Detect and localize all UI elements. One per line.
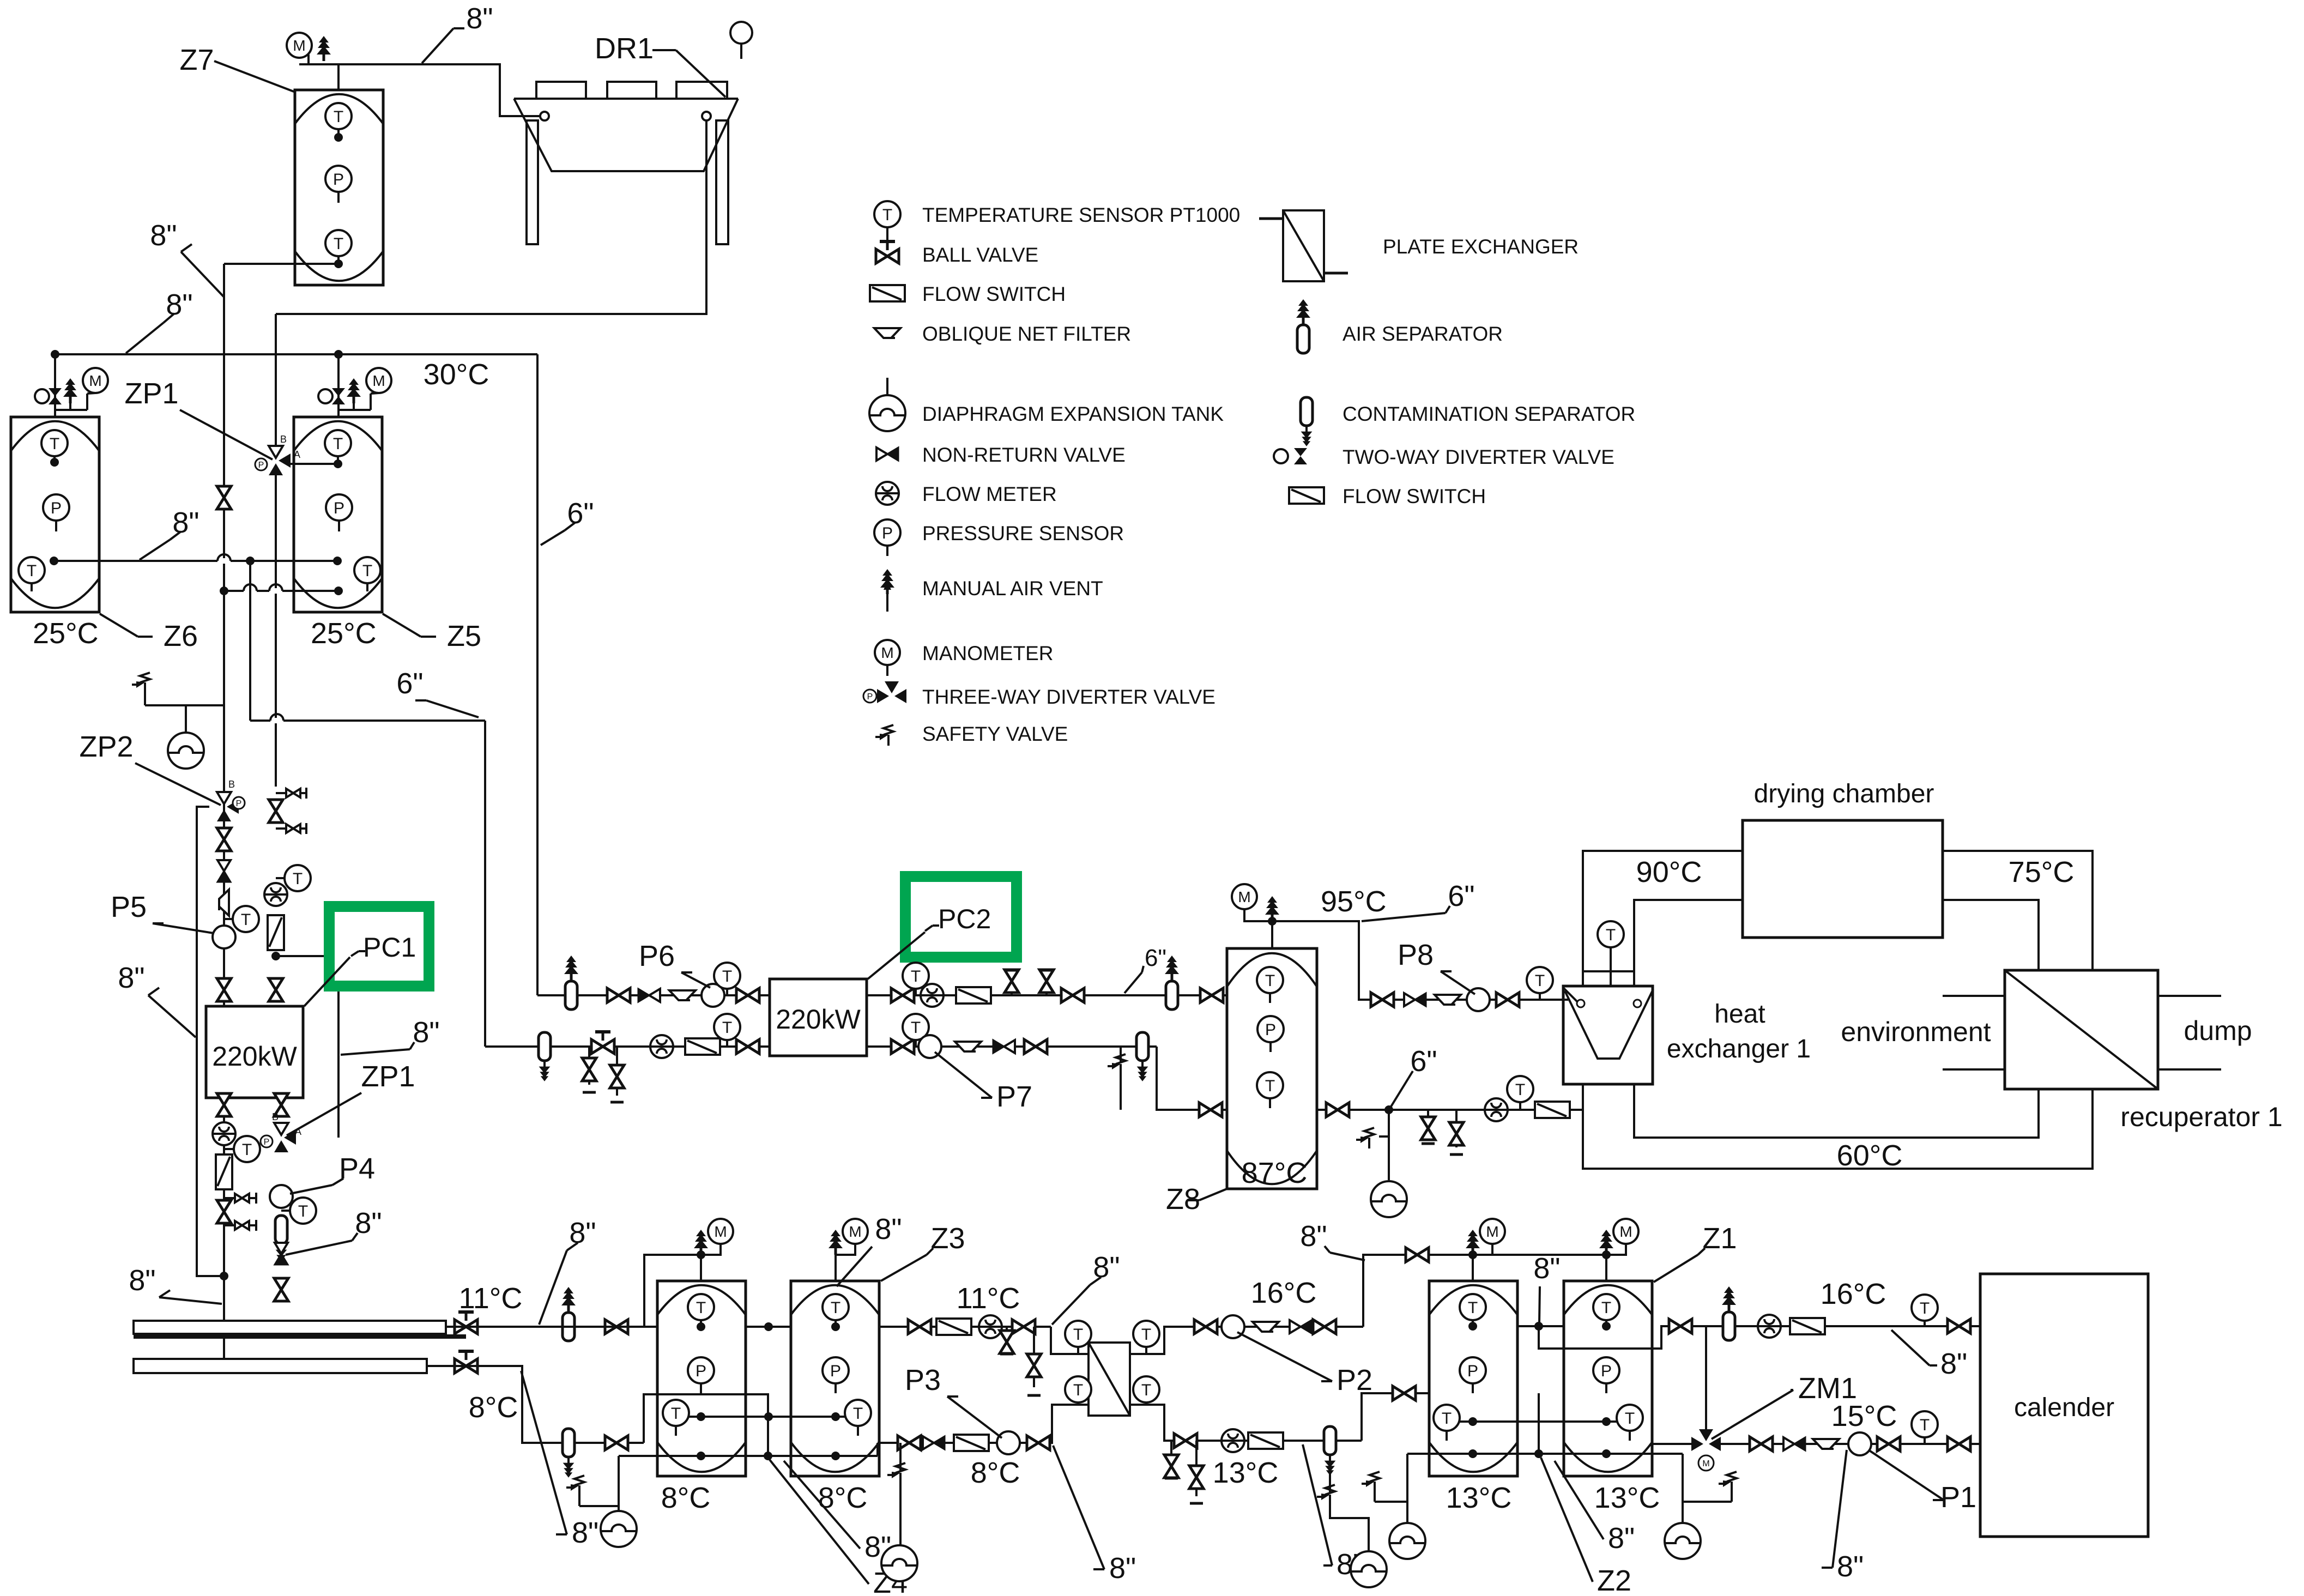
svg-text:6": 6" [396, 667, 423, 700]
collector pipe lower [134, 1359, 427, 1373]
wire 30C loop right edge riser [536, 354, 539, 995]
svg-text:MANUAL AIR VENT: MANUAL AIR VENT [922, 577, 1103, 600]
DR1 left port circle [540, 112, 549, 120]
ball valve P8 a [1371, 993, 1394, 1007]
node bypass join [220, 1272, 228, 1280]
svg-text:Z5: Z5 [447, 620, 481, 652]
flow meter PC2 return [650, 1035, 673, 1058]
wire exch hot out [878, 1405, 1088, 1443]
wire Z8 loop connection [1582, 1110, 1584, 1169]
svg-text:6": 6" [1145, 945, 1166, 971]
wire ZP1 A-port to Z5 [291, 463, 338, 465]
node Z3 top [831, 1322, 840, 1331]
temperature sensor Z5 bottom [354, 557, 380, 583]
temperature sensor P8 line [1539, 993, 1541, 1000]
wire Z6-Z5 mid sensor line [54, 560, 337, 562]
temperature sensor duct [1598, 921, 1624, 947]
svg-text:DIAPHRAGM EXPANSION TANK: DIAPHRAGM EXPANSION TANK [922, 403, 1224, 425]
manometer Z3 [836, 1244, 855, 1255]
wire lower sensor line [224, 590, 338, 592]
svg-text:recuperator 1: recuperator 1 [2120, 1102, 2282, 1132]
safety valve Z8 cluster [1388, 1110, 1390, 1136]
air separator 16C [1722, 1286, 1736, 1340]
svg-text:CONTAMINATION SEPARATOR: CONTAMINATION SEPARATOR [1343, 403, 1635, 425]
node gap top [764, 1322, 773, 1331]
svg-text:PLATE EXCHANGER: PLATE EXCHANGER [1383, 235, 1579, 258]
node Z3 bottom [831, 1452, 840, 1460]
wire PC2 supply line [537, 994, 770, 996]
pump P6 [702, 984, 724, 1007]
svg-text:heat: heat [1714, 1000, 1765, 1029]
temperature sensor Z1 bottom [1617, 1405, 1643, 1431]
pump P8 [1467, 988, 1490, 1011]
node Z1 top [1602, 1322, 1611, 1331]
two-way diverter valve above Z5 [318, 388, 345, 404]
svg-text:P: P [264, 1138, 270, 1147]
svg-text:SAFETY VALVE: SAFETY VALVE [922, 723, 1068, 745]
expansion tank Z8 [1371, 1181, 1407, 1217]
wire PC2 return line [485, 1045, 770, 1048]
manual air vent above Z5 [338, 409, 354, 411]
svg-text:exchanger 1: exchanger 1 [1667, 1035, 1811, 1063]
ball valve x411 with drains [217, 1200, 231, 1223]
svg-text:8": 8" [1533, 1252, 1560, 1285]
wire 8C return [427, 1366, 644, 1443]
node Z1 bot sensor [1602, 1417, 1611, 1426]
oblique filter P2 [1253, 1322, 1279, 1332]
wire bottom sensor line Z2Z1 [1447, 1420, 1630, 1423]
svg-text:60°C: 60°C [1837, 1139, 1903, 1172]
svg-text:P: P [258, 461, 264, 470]
tank Z4 [657, 1281, 746, 1476]
drain branch x411 b [224, 1224, 256, 1226]
temperature sensor Z1 top [1593, 1294, 1619, 1320]
svg-text:PC2: PC2 [938, 904, 991, 934]
node Z4 bottom [697, 1452, 705, 1460]
ball valve P2 b [1313, 1320, 1336, 1334]
ball valve 15C a [1750, 1437, 1773, 1451]
ball valve Z8 bottom in [1199, 1103, 1222, 1117]
node Z3 bot sensor [831, 1412, 840, 1421]
ball valve collector 8C [455, 1351, 477, 1373]
ball valve PC2 return b [736, 1039, 759, 1054]
ball valve P2 line [1194, 1320, 1217, 1334]
manometer above Z5 [370, 394, 372, 410]
non-return P7 [993, 1040, 1015, 1053]
tank Z2 [1429, 1281, 1517, 1476]
air separator PC2 supply [564, 956, 578, 1009]
ball valve x516 [274, 1278, 288, 1301]
node Z2 bottom [1468, 1449, 1477, 1458]
wire PC2 hot out [867, 994, 1227, 996]
non-return P2 [1290, 1320, 1311, 1333]
svg-text:PC1: PC1 [363, 932, 416, 963]
wire environment stub b [1943, 1068, 2005, 1071]
pump P3 [997, 1431, 1020, 1454]
DR1 right leg [716, 120, 728, 244]
wire bottom sensor line [676, 1416, 858, 1418]
wire ET tee line [145, 704, 224, 706]
wire ZP1 riser from DR1 return [275, 314, 277, 446]
ball valve P6 b [736, 988, 759, 1002]
wire 6-inch supply riser to PC2 return [484, 721, 486, 1047]
manometer above Z6 [86, 394, 88, 410]
svg-text:calender: calender [2014, 1393, 2114, 1422]
manometer Z2 [1473, 1244, 1492, 1255]
wire ZP1 down leg [275, 475, 277, 787]
node riser branch [246, 557, 255, 565]
svg-text:B: B [272, 1111, 279, 1122]
temperature sensor Z2 top [1460, 1294, 1486, 1320]
temperature sensor Z6 bottom [19, 557, 45, 583]
ball valve PC2 out b [1061, 988, 1084, 1002]
wire Z1 top riser [1605, 1255, 1607, 1281]
legend manual air vent [880, 569, 894, 594]
svg-text:Z7: Z7 [179, 44, 214, 76]
leader PC1 to heat pump [304, 957, 350, 1006]
non-return valve x516 [275, 1243, 288, 1265]
crossing bump [217, 558, 231, 564]
manometer M at Z7 top [307, 55, 310, 64]
node Z5 mid [333, 557, 342, 565]
pump P7 [918, 1035, 941, 1058]
temperature sensor Z5 top [325, 430, 351, 456]
ball valve P8 b [1496, 993, 1519, 1007]
temperature sensor P6 [726, 987, 728, 995]
svg-text:MANOMETER: MANOMETER [922, 642, 1054, 664]
wire Z8 return drop [1157, 1047, 1227, 1110]
svg-text:8": 8" [466, 2, 493, 35]
svg-text:P4: P4 [339, 1152, 375, 1185]
recuperator 1 box [2005, 970, 2158, 1089]
pressure sensor Z4 [688, 1357, 714, 1383]
ball valve 15C b [1877, 1437, 1900, 1451]
legend manometer [875, 640, 900, 665]
leader PC2 to heat pump [868, 932, 925, 979]
svg-text:B: B [280, 434, 287, 445]
safety valve left cluster [144, 693, 146, 705]
legend flow switch 2 [1289, 487, 1324, 504]
DR1 top box 3 [676, 82, 727, 99]
svg-text:Z3: Z3 [930, 1222, 965, 1255]
DR1 right port circle [702, 112, 711, 120]
svg-text:8": 8" [150, 219, 177, 252]
legend non-return valve [876, 448, 898, 461]
legend two-way diverter valve [1294, 448, 1307, 464]
DR1 top box 2 [607, 82, 656, 99]
wire exch cold in [1130, 1405, 1362, 1441]
wire dump stub a [2158, 995, 2221, 997]
wire Z6 top riser [54, 354, 56, 417]
wire Z5 top riser [337, 354, 340, 417]
ball valve P7 b [1024, 1039, 1047, 1054]
pressure sensor Z5 middle [326, 494, 352, 521]
node Z6 mid [50, 557, 58, 565]
heat exchanger 1 funnel [1565, 989, 1653, 1059]
svg-text:ZP2: ZP2 [79, 730, 133, 763]
drain PC2 a [588, 1047, 590, 1085]
wire main left riser x411 [223, 264, 225, 1359]
label PC2 [925, 926, 933, 931]
flow switch 16C [1790, 1318, 1825, 1334]
temperature sensor 16C [1912, 1295, 1938, 1321]
legend flow switch [870, 285, 905, 301]
temperature sensor Z4 bottom [663, 1400, 689, 1426]
wire bottom left drop [579, 1456, 619, 1506]
controller PC2 green box [905, 876, 1017, 957]
wire 8-inch pipe Z7 to DR1 [338, 64, 541, 116]
svg-text:M: M [1702, 1459, 1709, 1468]
wire Z1 to ZM1 [1652, 1443, 1695, 1445]
svg-text:13°C: 13°C [1594, 1482, 1660, 1514]
non-return valve riser x411 [217, 860, 231, 882]
node header Z5 [334, 350, 343, 359]
air separator Z8 in [1165, 956, 1179, 1009]
safety valve pair2 left [1374, 1492, 1376, 1502]
safety valve 13C cluster [1329, 1459, 1331, 1494]
temperature sensor PC2 out [915, 987, 917, 995]
ball valve Z3 out b [1012, 1320, 1035, 1334]
wire tank bottom line Z2Z1 [1407, 1453, 1683, 1455]
svg-text:95°C: 95°C [1321, 885, 1387, 918]
manual air vent at Z7 top pipe [317, 36, 331, 61]
contamination separator x516 [275, 1216, 287, 1265]
sensor circle above DR1 [730, 22, 752, 44]
node Z1 vent [1602, 1250, 1611, 1259]
legend contamination separator [1301, 397, 1313, 446]
node Z4 top [697, 1322, 705, 1331]
drying chamber box [1743, 820, 1943, 938]
duct cap above heat exchanger [1583, 970, 1635, 972]
svg-text:8": 8" [355, 1207, 382, 1240]
node Z2 vent [1468, 1250, 1477, 1259]
safety valve pair1 left [578, 1496, 580, 1506]
svg-text:13°C: 13°C [1213, 1456, 1279, 1489]
wire Z8 bottom out [1317, 1109, 1583, 1111]
pressure sensor Z3 [823, 1357, 849, 1383]
three-way diverter valve ZP1 lower [274, 1123, 296, 1152]
legend flow meter [876, 482, 899, 505]
temperature sensor Z6 top [41, 430, 68, 456]
svg-text:220kW: 220kW [212, 1041, 297, 1072]
svg-text:P2: P2 [1337, 1364, 1372, 1396]
temperature sensor Z3 top [823, 1294, 849, 1320]
wire duct outer loop [1583, 851, 2093, 986]
legend three-way diverter valve [877, 681, 906, 703]
vent valve a [1005, 970, 1019, 995]
wire tank bottom line [619, 1455, 878, 1457]
flow switch Z8 out [1535, 1102, 1570, 1118]
pump P2 [1221, 1315, 1244, 1338]
temperature sensor P5 line [224, 918, 233, 920]
drain valve b [1033, 1327, 1035, 1387]
svg-text:PRESSURE SENSOR: PRESSURE SENSOR [922, 522, 1124, 545]
wire duct inner loop [1634, 900, 2039, 986]
ball valve below box left [217, 1093, 231, 1116]
ball valve 11C b [605, 1320, 628, 1334]
drain PC2 b [616, 1047, 618, 1096]
svg-text:FLOW METER: FLOW METER [922, 483, 1057, 505]
plate exchanger bottom circuit [1088, 1343, 1130, 1416]
legend temperature sensor [874, 201, 900, 227]
expansion tank pair2 left [1406, 1502, 1408, 1523]
svg-text:Z1: Z1 [1702, 1222, 1737, 1255]
temperature sensor Z7 bottom [325, 230, 352, 256]
node Z4 vent [697, 1250, 705, 1259]
wire 11C to exchanger [879, 1326, 1051, 1328]
svg-text:P7: P7 [996, 1080, 1032, 1113]
wire top sensor line through tanks [644, 1326, 879, 1328]
temperature sensor exch cold out [1133, 1321, 1159, 1347]
valve on riser x411 [217, 486, 231, 509]
svg-text:8°C: 8°C [661, 1482, 711, 1514]
temperature sensor 15C [1912, 1411, 1938, 1437]
tank Z8 [1227, 948, 1317, 1189]
three-way diverter valve ZP1 [269, 446, 291, 475]
wire Z7 bottom to left riser [224, 263, 338, 265]
contamination separator 13C [1324, 1426, 1336, 1476]
legend ball valve [876, 241, 899, 263]
wire 16C jog under Z1 [1539, 1326, 1696, 1349]
flow meter Z8 out [1485, 1098, 1508, 1121]
svg-text:25°C: 25°C [311, 617, 377, 650]
wire riser to vent manifold Z4 [644, 1255, 701, 1327]
pressure sensor Z1 [1593, 1357, 1619, 1383]
wire Z2 top riser [1472, 1255, 1474, 1281]
flow meter PC2 out [921, 984, 944, 1007]
manual air vent Z3 riser [834, 1255, 837, 1281]
svg-text:220kW: 220kW [776, 1004, 861, 1035]
wire ZM1 riser [1705, 1326, 1707, 1432]
manual air vent Z1 [1599, 1230, 1613, 1255]
label 8-inch top [422, 28, 453, 63]
label Z6 [100, 614, 138, 637]
svg-text:OBLIQUE NET FILTER: OBLIQUE NET FILTER [922, 323, 1131, 345]
three-way diverter valve ZP2 [217, 792, 239, 821]
manometer Z1 [1606, 1244, 1626, 1255]
crossing bump lower [244, 588, 257, 594]
drain branch x411 a [224, 1197, 256, 1199]
node x411 lower [220, 587, 228, 595]
wire exch cold out [1130, 1327, 1363, 1354]
tank Z6 [11, 417, 99, 612]
wire riser to Z1Z2 supply [1363, 1255, 1606, 1327]
wire 95C line [1272, 921, 1563, 1000]
temperature sensor Z4 top [688, 1294, 714, 1320]
temperature sensor exch cold in [1133, 1376, 1159, 1402]
controller PC1 green box [329, 906, 429, 986]
heat exchanger 1 box [1563, 986, 1653, 1084]
svg-text:8": 8" [1608, 1522, 1635, 1555]
temperature sensor Z8 bottom [1257, 1072, 1283, 1098]
svg-text:11°C: 11°C [459, 1282, 523, 1315]
pump P1 [1848, 1432, 1871, 1455]
ball valve P3 line [898, 1436, 921, 1450]
temperature sensor Z7 top [325, 103, 352, 129]
crossing bump supply [270, 718, 283, 723]
expansion tank pair2 right [1682, 1502, 1684, 1523]
DR1 left leg [527, 120, 538, 244]
legend safety valve [875, 725, 893, 746]
heat pump 220kW box 1 [206, 1006, 303, 1098]
flow meter x506 [264, 883, 287, 906]
expansion tank P3 [881, 1545, 917, 1581]
air separator 11C line [561, 1287, 576, 1341]
wire 15C return [1718, 1443, 1980, 1445]
wire 16C to calender [1696, 1325, 1980, 1327]
svg-text:Z6: Z6 [164, 620, 198, 652]
ball valve P6 a [607, 988, 630, 1002]
node Z8 drain [1384, 1105, 1393, 1114]
wire DR1 return down and left [276, 120, 706, 314]
wire jog to exchanger hot in [1051, 1327, 1088, 1354]
drain valve Z8 a [1427, 1110, 1429, 1136]
svg-text:6": 6" [1410, 1045, 1437, 1078]
ball valve below box right [274, 1093, 288, 1116]
oblique filter P7 [955, 1042, 981, 1051]
collector pipe upper [134, 1321, 446, 1334]
svg-text:FLOW SWITCH: FLOW SWITCH [922, 283, 1066, 305]
temperature sensor P7 [915, 1038, 917, 1047]
svg-text:13°C: 13°C [1446, 1482, 1512, 1514]
safety valve P3 drop [899, 1443, 902, 1472]
svg-text:B: B [228, 779, 235, 790]
temperature sensor Z3 bottom [845, 1400, 871, 1426]
flow meter 13C [1221, 1429, 1244, 1452]
contamination separator PC2 return [1136, 1032, 1148, 1081]
wire bottom jog [876, 1443, 879, 1456]
oblique filter riser x411 [219, 890, 229, 916]
svg-text:P: P [867, 692, 873, 702]
three-way diverter valve ZM1 [1691, 1429, 1721, 1451]
non-return P8 [1404, 993, 1426, 1006]
drain branch x506 b [276, 827, 306, 830]
svg-text:THREE-WAY DIVERTER VALVE: THREE-WAY DIVERTER VALVE [922, 686, 1216, 708]
svg-text:75°C: 75°C [2009, 856, 2075, 888]
drain branch x506 a [276, 792, 306, 794]
ball valve collector 11C [455, 1312, 477, 1334]
svg-text:11°C: 11°C [957, 1282, 1020, 1315]
node Z1 bottom [1602, 1449, 1611, 1458]
oblique filter 15C [1813, 1439, 1839, 1449]
svg-text:TWO-WAY DIVERTER VALVE: TWO-WAY DIVERTER VALVE [1343, 446, 1614, 468]
oblique filter P8 [1435, 995, 1461, 1005]
svg-text:P6: P6 [639, 940, 675, 972]
manual air vent above Z6 [55, 409, 70, 411]
node Z2 bot sensor [1468, 1417, 1477, 1426]
flow switch PC2 return [685, 1038, 720, 1055]
legend oblique net filter [874, 328, 900, 338]
legend pressure sensor [874, 519, 900, 546]
node Z5 lower [334, 587, 343, 595]
svg-text:87°C: 87°C [1242, 1157, 1308, 1189]
manual air vent Z2 [1466, 1230, 1480, 1255]
node gap bot sensor [764, 1412, 773, 1421]
dryer DR1 trapezoid [514, 98, 738, 100]
svg-text:drying chamber: drying chamber [1754, 779, 1934, 808]
svg-text:P3: P3 [905, 1364, 941, 1396]
manual air vent Z4 [694, 1230, 708, 1255]
wire PC1 control line [276, 956, 338, 1138]
tank Z1 [1564, 1281, 1652, 1476]
flow meter Z3 out [979, 1315, 1002, 1338]
ball valve P3 b [1027, 1436, 1050, 1450]
wire dump stub b [2158, 1068, 2221, 1071]
vent valve b [1039, 970, 1054, 995]
pressure sensor Z8 [1257, 1016, 1284, 1042]
wire environment stub a [1943, 995, 2005, 997]
tank Z7 [295, 90, 383, 285]
